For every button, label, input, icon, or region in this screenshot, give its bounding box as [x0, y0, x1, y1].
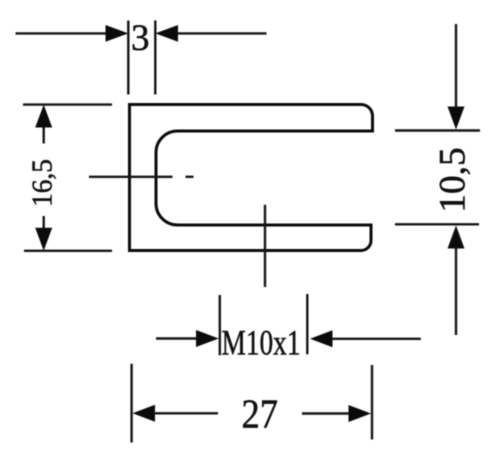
dim 3 extension lines [128, 21, 155, 95]
svg-text:10,5: 10,5 [433, 147, 474, 212]
U-profile outline [130, 105, 373, 251]
vertical centerline [264, 205, 266, 287]
svg-text:3: 3 [131, 18, 150, 59]
dim 3 dimension lines and arrows [16, 25, 267, 42]
horizontal centerline [89, 176, 194, 178]
dim 27 label [241, 392, 277, 437]
dim 16,5 dimension lines and arrows [35, 105, 52, 251]
dim 10,5 extension lines [395, 131, 480, 225]
dim 16,5 label [27, 159, 59, 207]
svg-text:16,5: 16,5 [27, 159, 59, 207]
dim M10x1 label [222, 323, 301, 362]
dim 16,5 extension lines [23, 105, 112, 251]
dim 27 extension lines [132, 364, 372, 443]
dim 3 label [131, 18, 150, 59]
dim M10x1 dimension lines and arrows [156, 330, 421, 347]
svg-text:27: 27 [241, 392, 277, 437]
svg-text:M10x1: M10x1 [222, 323, 301, 362]
dim 27 dimension lines and arrows [133, 405, 372, 422]
dim M10x1 extension lines [220, 294, 307, 355]
dim 10,5 label [433, 147, 474, 212]
dim 10,5 dimension lines and arrows [448, 24, 465, 335]
